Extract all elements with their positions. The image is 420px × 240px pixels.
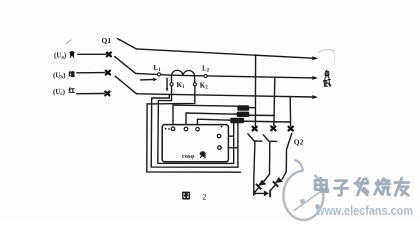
svg-text:K2: K2 [200, 82, 208, 91]
svg-text:(Ua): (Ua) [54, 51, 67, 60]
svg-text:L2: L2 [202, 65, 210, 74]
svg-text:Q1: Q1 [102, 36, 112, 45]
svg-text:www.elecfans.com: www.elecfans.com [315, 203, 413, 218]
svg-text:2: 2 [203, 192, 207, 201]
svg-text:(Ub): (Ub) [53, 71, 66, 80]
svg-text:L1: L1 [154, 64, 162, 73]
svg-text:K1: K1 [177, 81, 185, 90]
svg-text:Q2: Q2 [294, 138, 304, 147]
svg-text:(Uc): (Uc) [53, 88, 66, 97]
svg-text:cosφ: cosφ [182, 153, 195, 160]
